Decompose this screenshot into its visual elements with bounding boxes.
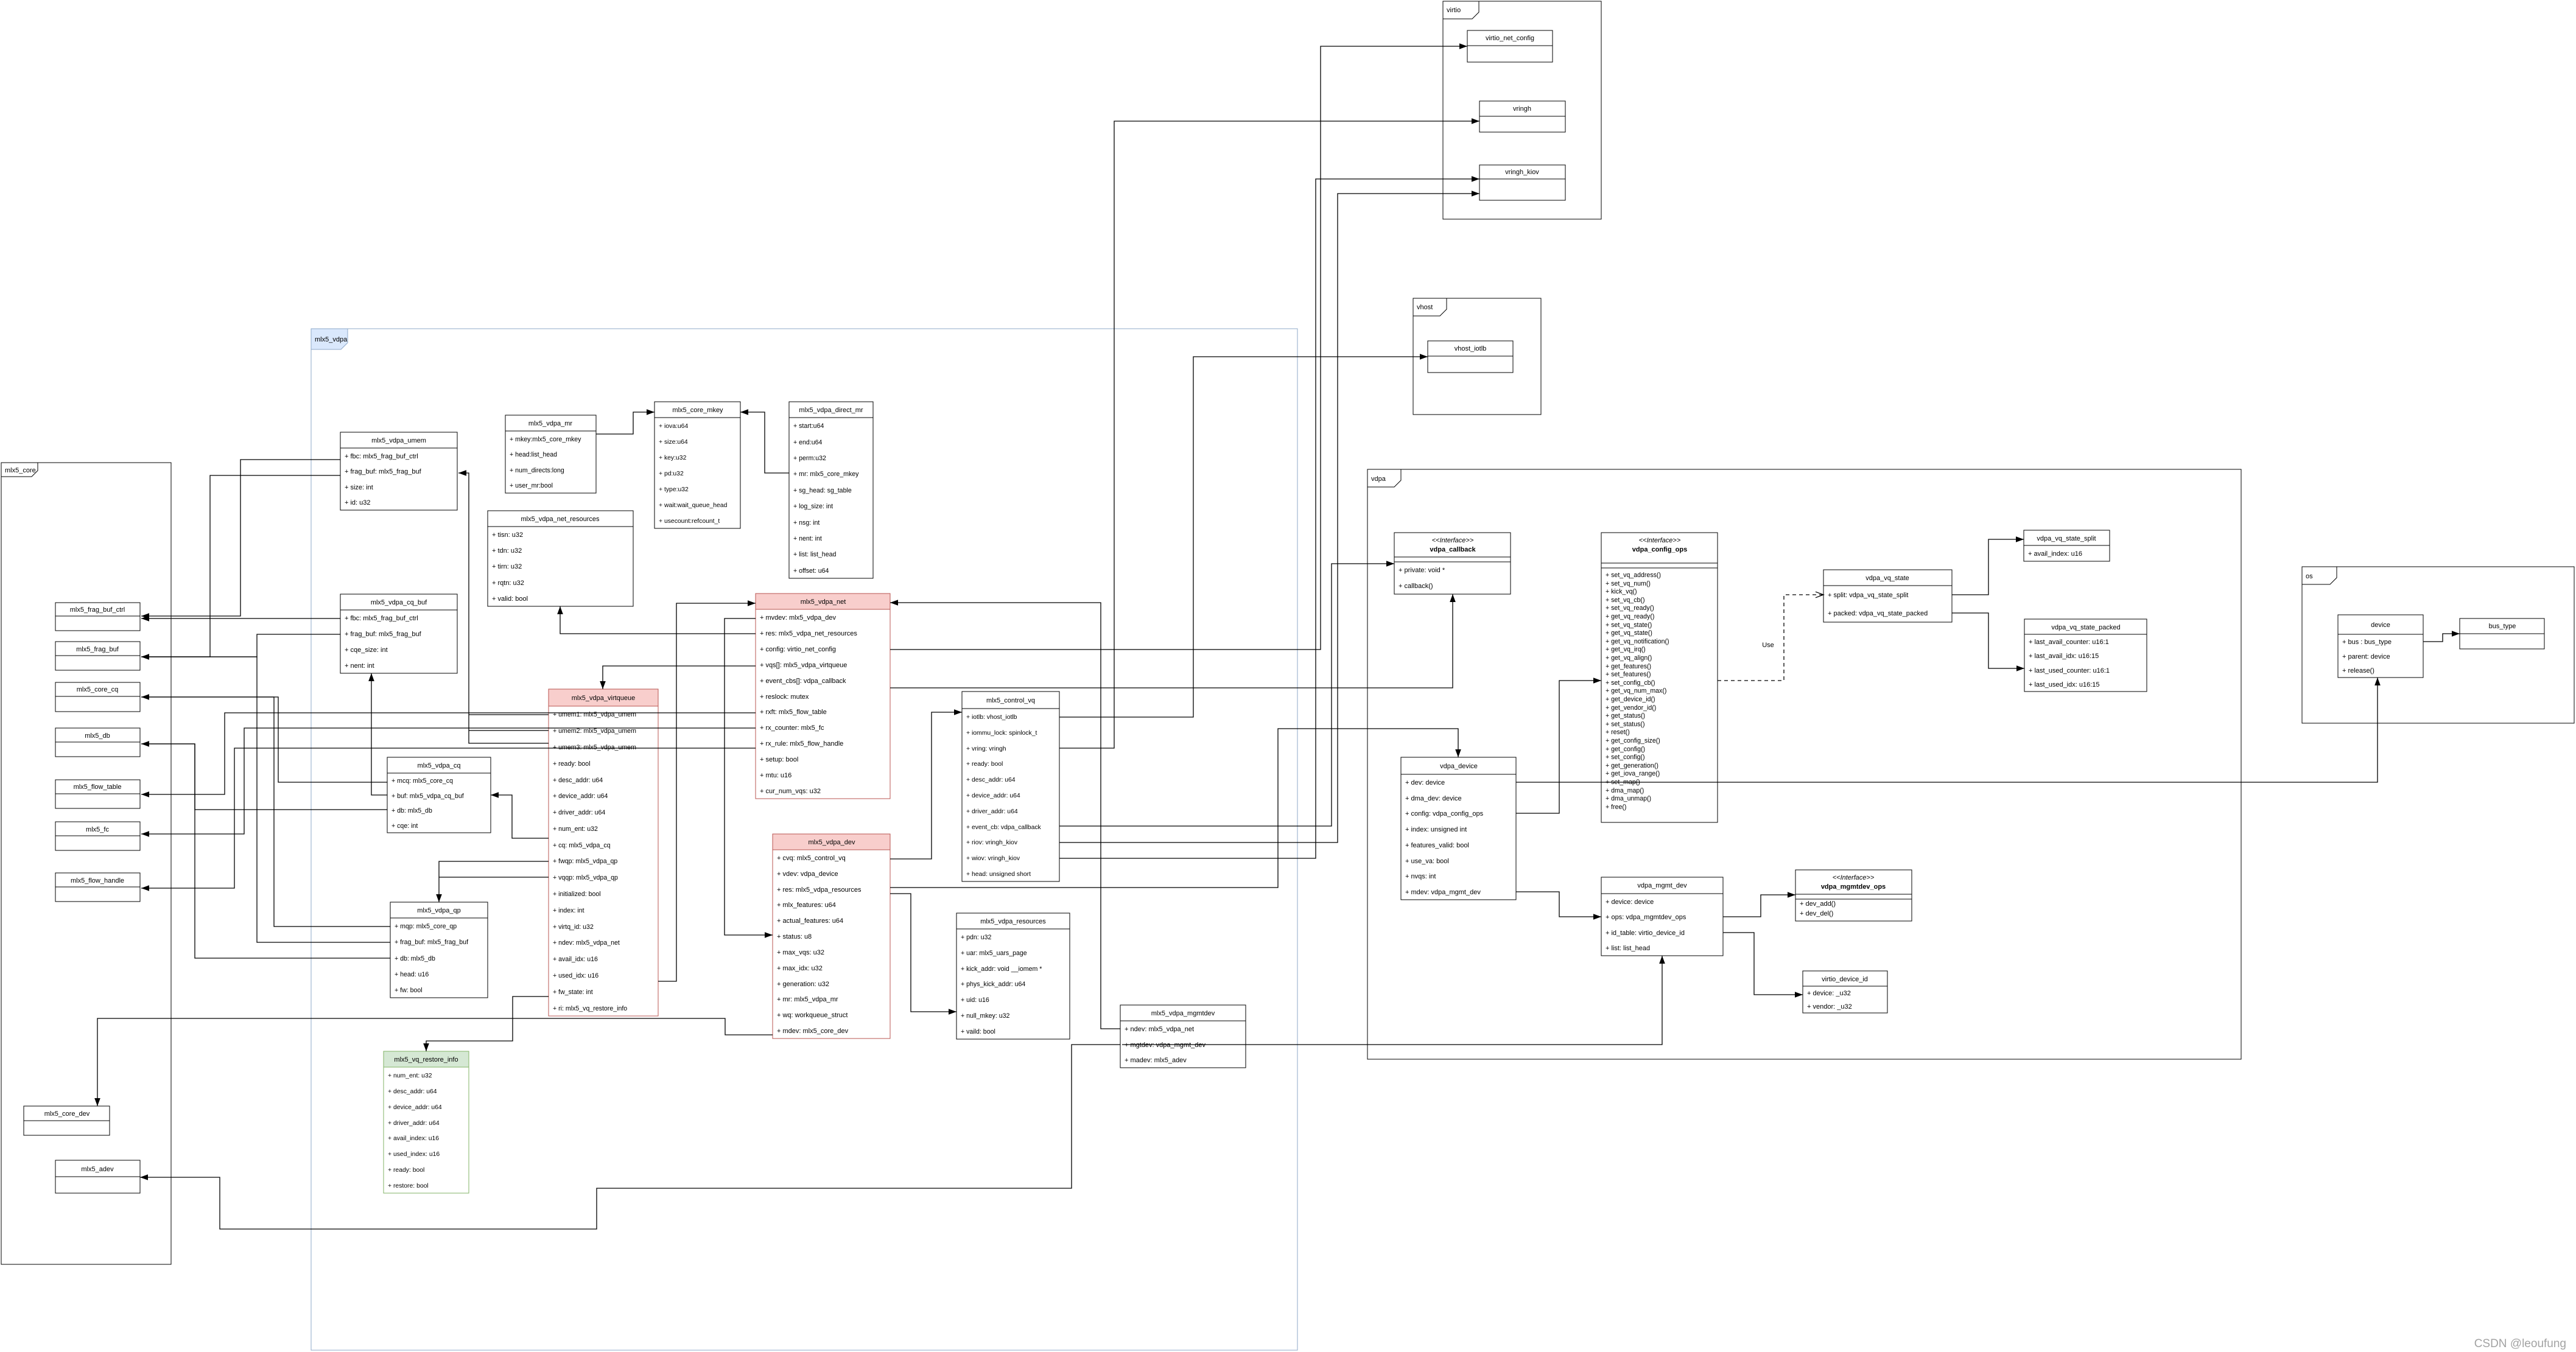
svg-text:+ nent: int: + nent: int [345,662,374,670]
svg-text:+ ndev: mlx5_vdpa_net: + ndev: mlx5_vdpa_net [1125,1026,1194,1033]
class mlx5_vdpa_cq_buf [340,594,457,673]
svg-text:+ used_index: u16: + used_index: u16 [388,1151,440,1158]
svg-text:+ frag_buf: mlx5_frag_buf: + frag_buf: mlx5_frag_buf [345,468,422,475]
class mlx5_fc [55,822,140,850]
edge mlx5_vdpa_direct_mr.mr -> mlx5_core_mkey [740,409,789,473]
svg-text:+ event_cb: vdpa_callback: + event_cb: vdpa_callback [966,824,1042,831]
svg-text:<<Interface>>: <<Interface>> [1639,537,1681,544]
svg-text:+ usecount:refcount_t: + usecount:refcount_t [659,518,720,525]
svg-text:+ rx_rule: mlx5_flow_handle: + rx_rule: mlx5_flow_handle [760,740,843,748]
class virtio_net_config [1467,30,1553,62]
svg-text:+ res: mlx5_vdpa_net_resources: + res: mlx5_vdpa_net_resources [760,630,857,637]
svg-text:+ size:u64: + size:u64 [659,439,688,446]
svg-text:+ end:u64: + end:u64 [793,439,823,446]
edge mlx5_control_vq.event_cb -> vdpa_callback [1059,561,1394,826]
edge mlx5_vdpa_umem.frag_buf -> mlx5_frag_buf [141,475,340,660]
svg-text:+ get_iova_range(): + get_iova_range() [1606,770,1660,777]
svg-text:virtio_net_config: virtio_net_config [1486,35,1534,42]
edge mlx5_vdpa_dev.res -> mlx5_vdpa_resources [890,894,956,1015]
svg-text:+ umem1: mlx5_vdpa_umem: + umem1: mlx5_vdpa_umem [553,711,636,718]
svg-text:+ get_config_size(): + get_config_size() [1606,737,1660,744]
svg-text:mlx5_vdpa_cq: mlx5_vdpa_cq [418,762,461,769]
edge mlx5_vdpa_net.rx_counter -> mlx5_fc [141,728,756,837]
class vringh_kiov [1479,165,1565,200]
svg-text:+ key:u32: + key:u32 [659,455,687,461]
svg-text:+ get_vq_irq(): + get_vq_irq() [1606,646,1646,653]
svg-text:+ device: _u32: + device: _u32 [1807,990,1851,997]
svg-text:+ perm:u32: + perm:u32 [793,455,826,462]
class mlx5_frag_buf_ctrl [55,603,140,631]
svg-text:mlx5_vdpa_resources: mlx5_vdpa_resources [980,918,1046,925]
svg-text:mlx5_vdpa_cq_buf: mlx5_vdpa_cq_buf [371,599,427,606]
svg-text:+ tirn: u32: + tirn: u32 [492,563,522,570]
edge mlx5_vdpa_virtqueue.ri -> mlx5_vq_restore_info [423,996,549,1051]
svg-text:+ config: vdpa_config_ops: + config: vdpa_config_ops [1405,810,1484,818]
svg-text:+ index: unsigned int: + index: unsigned int [1405,826,1467,833]
svg-text:+ res: mlx5_vdpa_resources: + res: mlx5_vdpa_resources [777,886,862,894]
svg-text:+ reset(): + reset() [1606,729,1630,736]
svg-text:+ use_va: bool: + use_va: bool [1405,858,1449,865]
svg-text:+ mgtdev: vdpa_mgmt_dev: + mgtdev: vdpa_mgmt_dev [1125,1042,1206,1049]
svg-text:mlx5_adev: mlx5_adev [81,1166,114,1173]
class mlx5_core_dev [24,1106,110,1135]
svg-text:+ ready: bool: + ready: bool [553,760,591,768]
edge mlx5_vdpa_dev.cvq -> mlx5_control_vq [890,709,962,859]
svg-text:+ head: u16: + head: u16 [395,971,429,978]
svg-text:+ reslock: mutex: + reslock: mutex [760,693,809,701]
svg-text:+ max_vqs: u32: + max_vqs: u32 [777,949,824,956]
edge mlx5_vdpa_net.mvdev -> mlx5_vdpa_dev [725,618,773,938]
class vdpa_mgmt_dev [1601,877,1723,956]
svg-text:+ vqqp: mlx5_vdpa_qp: + vqqp: mlx5_vdpa_qp [553,874,618,881]
svg-text:+ mdev: mlx5_core_dev: + mdev: mlx5_core_dev [777,1028,849,1035]
svg-text:+ id_table: virtio_device_id: + id_table: virtio_device_id [1606,930,1685,937]
edge mlx5_vdpa_virtqueue.fwqp -> mlx5_vdpa_qp [436,861,549,902]
svg-text:+ iova:u64: + iova:u64 [659,423,688,430]
svg-text:+ set_features(): + set_features() [1606,671,1651,678]
edge vdpa_vq_state.split -> vdpa_vq_state_split [1952,536,2024,595]
package vhost [1413,298,1541,415]
class mlx5_flow_table [55,780,140,808]
svg-text:+ mkey:mlx5_core_mkey: + mkey:mlx5_core_mkey [510,436,581,443]
class mlx5_vdpa_qp [390,902,488,998]
svg-text:+ num_ent: u32: + num_ent: u32 [553,825,598,833]
svg-text:+ driver_addr: u64: + driver_addr: u64 [553,809,605,816]
svg-text:+ device: device: + device: device [1606,898,1654,906]
svg-text:+ iommu_lock: spinlock_t: + iommu_lock: spinlock_t [966,730,1037,737]
svg-text:+ desc_addr: u64: + desc_addr: u64 [553,777,603,784]
package vdpa [1367,469,2241,1059]
svg-text:+ set_vq_state(): + set_vq_state() [1606,622,1652,629]
svg-text:+ ri: mlx5_vq_restore_info: + ri: mlx5_vq_restore_info [553,1005,627,1012]
class vhost_iotlb [1428,341,1513,373]
svg-text:+ used_idx: u16: + used_idx: u16 [553,972,598,979]
svg-text:+ head: unsigned short: + head: unsigned short [966,871,1031,878]
svg-text:vdpa_device: vdpa_device [1440,763,1478,770]
package mlx5_core [1,463,171,1264]
svg-text:+ get_features(): + get_features() [1606,663,1651,670]
svg-text:+ device_addr: u64: + device_addr: u64 [966,793,1020,799]
svg-text:+ get_status(): + get_status() [1606,712,1645,720]
svg-text:+ virtq_id: u32: + virtq_id: u32 [553,923,594,931]
class mlx5_frag_buf [55,642,140,670]
svg-text:+ split: vdpa_vq_state_split: + split: vdpa_vq_state_split [1828,592,1908,599]
svg-text:+ tisn: u32: + tisn: u32 [492,531,523,539]
svg-text:mlx5_control_vq: mlx5_control_vq [986,697,1035,704]
edge vdpa_device.config -> vdpa_config_ops [1516,678,1601,813]
class mlx5_vdpa_mr [505,415,596,493]
svg-text:+ fw_state: int: + fw_state: int [553,989,593,996]
svg-text:+ wq: workqueue_struct: + wq: workqueue_struct [777,1012,848,1019]
svg-text:+ uar: mlx5_uars_page: + uar: mlx5_uars_page [961,950,1027,957]
svg-text:+ mcq: mlx5_core_cq: + mcq: mlx5_core_cq [391,777,453,785]
svg-text:+ frag_buf: mlx5_frag_buf: + frag_buf: mlx5_frag_buf [395,939,468,946]
svg-text:+ features_valid: bool: + features_valid: bool [1405,842,1469,849]
svg-text:+ list: list_head: + list: list_head [793,551,836,558]
svg-text:bus_type: bus_type [2489,623,2516,630]
svg-text:mlx5_db: mlx5_db [85,732,110,740]
edge vdpa_mgmt_dev.ops -> vdpa_mgmtdev_ops [1723,892,1795,917]
svg-text:+ private: void *: + private: void * [1399,567,1445,574]
package mlx5_vdpa [311,329,1297,1350]
svg-text:mlx5_vdpa_umem: mlx5_vdpa_umem [371,437,426,444]
svg-text:+ event_cbs[]: vdpa_callback: + event_cbs[]: vdpa_callback [760,678,846,685]
class mlx5_vdpa_mgmtdev [1120,1005,1246,1068]
edge mlx5_vdpa_net.res -> mlx5_vdpa_net_resources [557,606,756,634]
edge mlx5_vdpa_mgmtdev.ndev -> mlx5_vdpa_net [890,600,1120,1029]
edge mlx5_vdpa_qp.db -> mlx5_db [141,744,390,958]
svg-text:+ cur_num_vqs: u32: + cur_num_vqs: u32 [760,788,821,795]
class mlx5_adev [55,1160,140,1193]
svg-text:+ vqs[]: mlx5_vdpa_virtqueue: + vqs[]: mlx5_vdpa_virtqueue [760,662,847,669]
svg-text:+ log_size: int: + log_size: int [793,503,833,510]
svg-text:+ get_vendor_id(): + get_vendor_id() [1606,704,1656,712]
edge mlx5_vdpa_qp.mqp -> mlx5_core_cq [141,697,390,926]
svg-text:+ index: int: + index: int [553,907,584,914]
svg-text:+ kick_addr: void __iomem *: + kick_addr: void __iomem * [961,965,1042,973]
svg-text:+ get_generation(): + get_generation() [1606,762,1658,769]
svg-text:+ last_used_idx: u16:15: + last_used_idx: u16:15 [2029,681,2100,688]
svg-text:+ valid: bool: + valid: bool [492,595,528,603]
svg-text:vdpa_vq_state_split: vdpa_vq_state_split [2037,535,2096,542]
svg-text:<<Interface>>: <<Interface>> [1432,537,1474,544]
edge mlx5_vdpa_mgmtdev.madev -> mlx5_adev [140,1045,1120,1229]
class mlx5_control_vq [962,692,1059,881]
svg-text:+ get_device_id(): + get_device_id() [1606,696,1655,703]
class vringh [1479,101,1565,132]
svg-text:+ mr: mlx5_core_mkey: + mr: mlx5_core_mkey [793,471,859,478]
svg-text:+ set_config(): + set_config() [1606,754,1644,761]
edge mlx5_vdpa_net.config -> virtio_net_config [890,43,1467,650]
edge mlx5_control_vq.riov -> vringh_kiov [1059,191,1479,842]
svg-text:mlx5_vdpa_dev: mlx5_vdpa_dev [808,839,855,846]
svg-text:+ bus : bus_type: + bus : bus_type [2342,639,2392,646]
svg-text:+ uid: u16: + uid: u16 [961,996,989,1004]
svg-text:+ packed: vdpa_vq_state_packed: + packed: vdpa_vq_state_packed [1828,610,1928,617]
svg-text:+ actual_features: u64: + actual_features: u64 [777,917,843,925]
svg-text:+ fw: bool: + fw: bool [395,987,423,994]
class mlx5_vdpa_net [756,594,890,799]
svg-text:+ release(): + release() [2342,667,2374,674]
svg-text:+ get_vq_state(): + get_vq_state() [1606,629,1652,637]
edge vdpa_vq_state.packed -> vdpa_vq_state_packed [1952,613,2024,671]
svg-text:+ initialized: bool: + initialized: bool [553,891,601,898]
svg-text:+ fbc: mlx5_frag_buf_ctrl: + fbc: mlx5_frag_buf_ctrl [345,615,418,622]
svg-text:+ id: u32: + id: u32 [345,499,371,506]
class mlx5_vdpa_cq [387,757,491,833]
svg-text:CSDN @leoufung: CSDN @leoufung [2474,1337,2566,1350]
svg-text:+ sg_head: sg_table: + sg_head: sg_table [793,487,852,494]
svg-text:+ dev_add(): + dev_add() [1800,900,1836,908]
svg-text:+ iotlb: vhost_iotlb: + iotlb: vhost_iotlb [966,714,1017,721]
svg-text:+ set_status(): + set_status() [1606,721,1644,728]
interface vdpa_mgmtdev_ops [1795,870,1912,921]
svg-text:+ vaild: bool: + vaild: bool [961,1028,995,1035]
edge mlx5_vdpa_net.rxft -> mlx5_flow_table [141,713,756,797]
edge mlx5_control_vq.wiov -> vringh_kiov [1059,176,1479,858]
svg-text:vringh: vringh [1513,105,1531,113]
svg-text:mlx5_core_cq: mlx5_core_cq [77,686,118,693]
class vdpa_vq_state_packed [2024,619,2147,692]
svg-text:+ mlx_features: u64: + mlx_features: u64 [777,902,836,909]
svg-text:+ nent: int: + nent: int [793,535,822,542]
svg-text:+ driver_addr: u64: + driver_addr: u64 [388,1120,440,1127]
class device [2338,615,2423,678]
edge mlx5_vdpa_mgmtdev.mgtdev -> vdpa_mgmt_dev [1122,956,1665,1045]
interface vdpa_callback [1394,533,1511,594]
svg-text:+ num_directs:long: + num_directs:long [510,467,564,474]
class vdpa_vq_state_split [2024,530,2110,561]
package virtio [1443,1,1601,219]
svg-text:+ vendor: _u32: + vendor: _u32 [1807,1003,1852,1010]
class mlx5_db [55,728,140,757]
svg-text:+ avail_idx: u16: + avail_idx: u16 [553,956,598,963]
class mlx5_vq_restore_info [384,1051,469,1193]
svg-text:+ fbc: mlx5_frag_buf_ctrl: + fbc: mlx5_frag_buf_ctrl [345,453,418,460]
svg-text:+ ready: bool: + ready: bool [966,761,1003,768]
edge mlx5_vdpa_mr.mkey -> mlx5_core_mkey [596,409,655,434]
svg-text:+ set_config_cb(): + set_config_cb() [1606,679,1655,687]
svg-text:+ start:u64: + start:u64 [793,422,824,430]
svg-text:+ db: mlx5_db: + db: mlx5_db [391,807,432,814]
svg-text:os: os [2306,573,2313,580]
svg-text:+ buf: mlx5_vdpa_cq_buf: + buf: mlx5_vdpa_cq_buf [391,793,464,800]
svg-text:vdpa_mgmtdev_ops: vdpa_mgmtdev_ops [1821,883,1886,891]
svg-text:vringh_kiov: vringh_kiov [1505,169,1539,176]
svg-text:+ num_ent: u32: + num_ent: u32 [388,1073,432,1079]
svg-text:+ callback(): + callback() [1399,583,1433,590]
edge mlx5_vdpa_dev.vdev -> vdpa_device [890,729,1461,888]
svg-text:+ null_mkey: u32: + null_mkey: u32 [961,1012,1009,1020]
svg-text:vdpa: vdpa [1371,475,1386,483]
edge mlx5_vdpa_qp.frag_buf -> mlx5_frag_buf [141,657,390,942]
class mlx5_core_mkey [655,402,740,528]
svg-text:mlx5_fc: mlx5_fc [86,826,109,833]
svg-text:+ device_addr: u64: + device_addr: u64 [388,1104,442,1111]
svg-text:mlx5_flow_table: mlx5_flow_table [74,783,122,791]
svg-text:mlx5_frag_buf: mlx5_frag_buf [76,646,119,653]
edge mlx5_vdpa_cq_buf.fbc -> mlx5_frag_buf_ctrl [141,615,340,622]
svg-text:+ phys_kick_addr: u64: + phys_kick_addr: u64 [961,981,1025,988]
svg-text:virtio: virtio [1447,7,1461,14]
svg-text:+ status: u8: + status: u8 [777,933,812,940]
class mlx5_core_cq [55,682,140,712]
svg-text:+ mtu: u16: + mtu: u16 [760,772,791,779]
svg-text:+ rxft: mlx5_flow_table: + rxft: mlx5_flow_table [760,709,827,716]
svg-text:vdpa_callback: vdpa_callback [1430,546,1476,553]
svg-text:+ config: virtio_net_config: + config: virtio_net_config [760,646,836,653]
svg-text:+ type:u32: + type:u32 [659,486,689,493]
class mlx5_vdpa_net_resources [488,511,633,606]
svg-text:+ frag_buf: mlx5_frag_buf: + frag_buf: mlx5_frag_buf [345,631,422,638]
edge mlx5_vdpa_dev.mdev -> mlx5_core_dev [94,1018,773,1106]
svg-text:+ max_idx: u32: + max_idx: u32 [777,965,823,972]
svg-text:+ user_mr:bool: + user_mr:bool [510,482,553,489]
class vdpa_device [1401,757,1516,900]
svg-text:+ get_vq_ready(): + get_vq_ready() [1606,613,1654,620]
edge device.bus -> bus_type [2423,631,2460,642]
edge mlx5_vdpa_cq.db -> mlx5_db [141,741,387,810]
svg-text:+ last_avail_counter: u16:1: + last_avail_counter: u16:1 [2029,639,2109,646]
svg-text:+ cqe: int: + cqe: int [391,822,418,830]
svg-text:vhost_iotlb: vhost_iotlb [1455,345,1487,352]
svg-text:+ vdev: vdpa_device: + vdev: vdpa_device [777,870,838,878]
edge mlx5_vdpa_umem.fbc -> mlx5_frag_buf_ctrl [141,460,340,619]
svg-text:+ fwqp: mlx5_vdpa_qp: + fwqp: mlx5_vdpa_qp [553,858,617,865]
edge vdpa_device.mdev -> vdpa_mgmt_dev [1516,892,1601,920]
svg-text:+ wiov: vringh_kiov: + wiov: vringh_kiov [966,855,1020,862]
class bus_type [2460,618,2544,649]
svg-text:+ nsg: int: + nsg: int [793,519,819,527]
svg-text:mlx5_vdpa_direct_mr: mlx5_vdpa_direct_mr [799,407,863,414]
class mlx5_flow_handle [55,873,140,902]
svg-text:vdpa_mgmt_dev: vdpa_mgmt_dev [1637,882,1687,889]
svg-text:mlx5_core_mkey: mlx5_core_mkey [672,407,723,414]
svg-text:vdpa_vq_state: vdpa_vq_state [1865,575,1909,582]
svg-text:+ generation: u32: + generation: u32 [777,981,829,988]
edge mlx5_vdpa_cq.buf -> mlx5_vdpa_cq_buf [368,673,387,795]
edge mlx5_control_vq.iotlb -> vhost_iotlb [1059,354,1428,717]
edge mlx5_vdpa_virtqueue.cq -> mlx5_vdpa_cq [491,792,549,838]
svg-text:+ set_vq_num(): + set_vq_num() [1606,580,1651,587]
svg-text:mlx5_vdpa_net: mlx5_vdpa_net [801,598,846,606]
edge mlx5_vdpa_virtqueue.umem1/2/3 -> mlx5_vdpa_umem [458,470,549,743]
svg-text:+ parent: device: + parent: device [2342,653,2390,660]
svg-text:mlx5_vdpa_virtqueue: mlx5_vdpa_virtqueue [572,695,636,702]
svg-text:+ mdev: vdpa_mgmt_dev: + mdev: vdpa_mgmt_dev [1405,889,1481,896]
svg-text:+ dev: device: + dev: device [1405,779,1445,786]
svg-text:+ free(): + free() [1606,804,1626,811]
svg-text:+ last_used_counter: u16:1: + last_used_counter: u16:1 [2029,667,2110,674]
svg-text:+ rx_counter: mlx5_fc: + rx_counter: mlx5_fc [760,724,824,732]
svg-text:mlx5_vdpa_qp: mlx5_vdpa_qp [417,907,461,914]
class mlx5_vdpa_resources [956,913,1070,1039]
svg-text:+ vring: vringh: + vring: vringh [966,746,1006,752]
package os [2302,567,2574,723]
svg-text:+ device_addr: u64: + device_addr: u64 [553,793,608,800]
svg-text:+ desc_addr: u64: + desc_addr: u64 [966,777,1016,783]
svg-text:+ rqtn: u32: + rqtn: u32 [492,580,524,587]
svg-text:+ set_vq_cb(): + set_vq_cb() [1606,597,1644,604]
svg-text:vdpa_config_ops: vdpa_config_ops [1632,546,1687,553]
edge mlx5_vdpa_net.event_cbs -> vdpa_callback [890,594,1456,688]
svg-text:+ restore: bool: + restore: bool [388,1183,429,1189]
svg-text:+ cvq: mlx5_control_vq: + cvq: mlx5_control_vq [777,855,846,862]
svg-text:+ mr: mlx5_vdpa_mr: + mr: mlx5_vdpa_mr [777,996,838,1003]
svg-text:+ mqp: mlx5_core_qp: + mqp: mlx5_core_qp [395,923,457,930]
svg-text:+ wait:wait_queue_head: + wait:wait_queue_head [659,502,728,509]
svg-text:+ cq: mlx5_vdpa_cq: + cq: mlx5_vdpa_cq [553,842,611,849]
edge vdpa_mgmt_dev.id_table -> virtio_device_id [1723,933,1803,998]
svg-text:+ offset: u64: + offset: u64 [793,567,829,575]
svg-text:+ ops: vdpa_mgmtdev_ops: + ops: vdpa_mgmtdev_ops [1606,914,1686,921]
svg-text:+ mvdev: mlx5_vdpa_dev: + mvdev: mlx5_vdpa_dev [760,614,837,622]
svg-text:mlx5_vdpa_net_resources: mlx5_vdpa_net_resources [521,516,600,523]
svg-text:+ setup: bool: + setup: bool [760,756,798,763]
class mlx5_vdpa_dev [773,834,890,1039]
svg-text:+ get_vq_align(): + get_vq_align() [1606,654,1652,662]
edge mlx5_vdpa_net.rx_rule -> mlx5_flow_handle [141,748,756,891]
svg-text:vhost: vhost [1417,304,1433,311]
svg-text:mlx5_vdpa: mlx5_vdpa [315,336,348,343]
edge mlx5_vdpa_virtqueue.ndev -> mlx5_vdpa_net [658,600,756,981]
svg-text:+ set_vq_ready(): + set_vq_ready() [1606,604,1654,612]
class mlx5_vdpa_virtqueue [549,689,658,1016]
svg-text:+ size: int: + size: int [345,484,373,491]
edge mlx5_vdpa_cq_buf.frag_buf -> mlx5_frag_buf [141,634,340,660]
svg-text:+ nvqs: int: + nvqs: int [1405,873,1436,880]
svg-text:+ set_vq_address(): + set_vq_address() [1606,572,1661,579]
edge vdpa_config_ops use vdpa_vq_state [1718,592,1823,681]
svg-text:+ tdn: u32: + tdn: u32 [492,547,522,555]
svg-text:vdpa_vq_state_packed: vdpa_vq_state_packed [2051,624,2120,631]
svg-text:mlx5_vq_restore_info: mlx5_vq_restore_info [394,1056,458,1063]
svg-text:+ ready: bool: + ready: bool [388,1167,424,1174]
svg-text:+ pdn: u32: + pdn: u32 [961,934,991,941]
class virtio_device_id [1803,971,1887,1013]
svg-text:+ list: list_head: + list: list_head [1606,945,1650,952]
svg-text:mlx5_vdpa_mgmtdev: mlx5_vdpa_mgmtdev [1151,1010,1215,1017]
svg-text:+ madev: mlx5_adev: + madev: mlx5_adev [1125,1057,1187,1064]
svg-text:+ dma_dev: device: + dma_dev: device [1405,795,1462,802]
svg-text:device: device [2371,622,2390,629]
svg-text:Use: Use [1762,642,1774,649]
svg-text:+ umem2: mlx5_vdpa_umem: + umem2: mlx5_vdpa_umem [553,727,636,735]
svg-text:+ get_vq_notification(): + get_vq_notification() [1606,638,1669,645]
class vdpa_vq_state [1823,570,1952,622]
svg-text:+ pd:u32: + pd:u32 [659,471,684,477]
svg-text:+ avail_index: u16: + avail_index: u16 [2028,550,2082,558]
svg-text:+ db: mlx5_db: + db: mlx5_db [395,955,435,962]
svg-text:+ desc_addr: u64: + desc_addr: u64 [388,1088,437,1095]
svg-text:+ dev_del(): + dev_del() [1800,910,1833,917]
svg-text:+ cqe_size: int: + cqe_size: int [345,646,388,654]
edge vdpa_device.dev -> device [1516,678,2381,782]
svg-text:mlx5_core: mlx5_core [5,467,36,474]
svg-text:+ umem3: mlx5_vdpa_umem: + umem3: mlx5_vdpa_umem [553,744,636,751]
svg-text:+ avail_index: u16: + avail_index: u16 [388,1135,439,1142]
interface vdpa_config_ops [1601,533,1718,822]
svg-text:+ driver_addr: u64: + driver_addr: u64 [966,808,1018,815]
edge mlx5_vdpa_virtqueue.vqqp -> mlx5_vdpa_qp [439,877,549,878]
edge mlx5_control_vq.vring -> vringh [1059,118,1479,748]
svg-text:virtio_device_id: virtio_device_id [1822,976,1868,983]
svg-text:+ kick_vq(): + kick_vq() [1606,588,1637,595]
svg-text:mlx5_frag_buf_ctrl: mlx5_frag_buf_ctrl [70,606,125,614]
svg-text:+ get_config(): + get_config() [1606,746,1645,753]
svg-text:+ dma_unmap(): + dma_unmap() [1606,795,1651,802]
class mlx5_vdpa_umem [340,432,457,510]
